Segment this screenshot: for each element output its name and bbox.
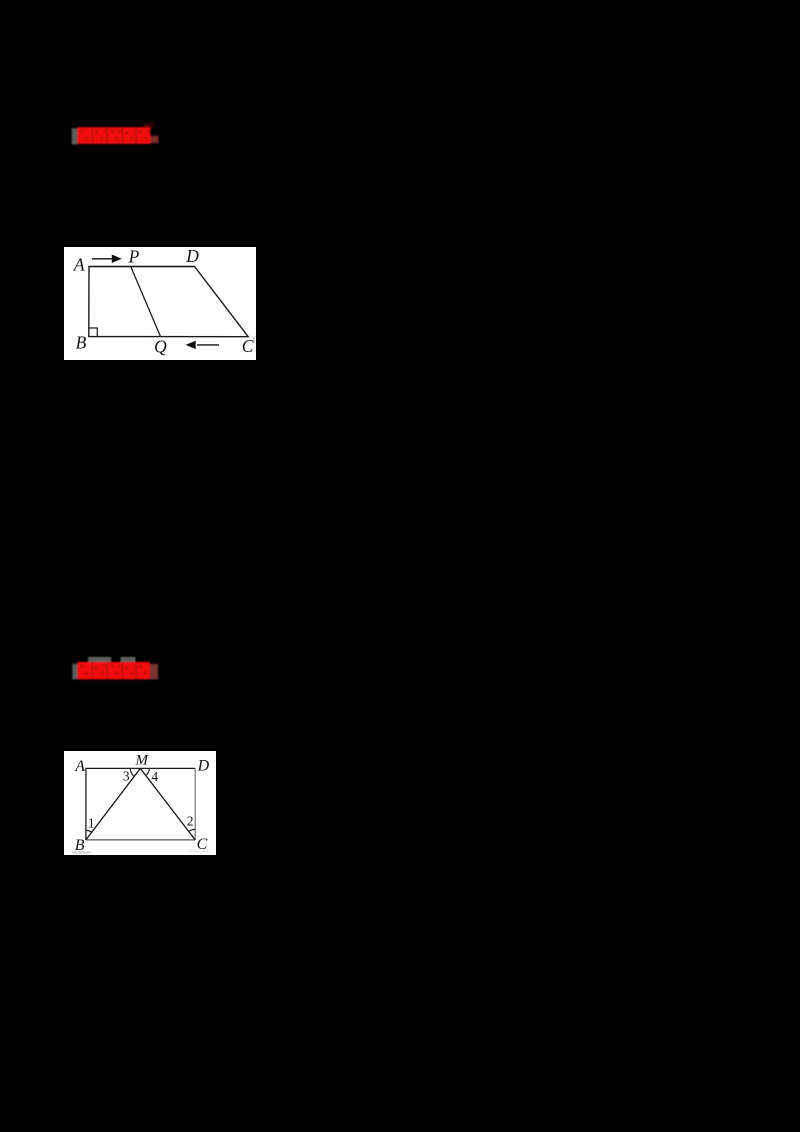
svg-text:M: M <box>134 753 149 769</box>
svg-text:3: 3 <box>123 768 130 783</box>
svg-text:B: B <box>76 333 87 353</box>
svg-text:1: 1 <box>88 816 95 831</box>
svg-text:A: A <box>73 255 85 275</box>
svg-text:D: D <box>197 758 210 775</box>
svg-text:Q: Q <box>154 337 167 357</box>
svg-text:4: 4 <box>151 769 158 784</box>
svg-text:C: C <box>242 336 254 356</box>
svg-text:D: D <box>185 247 199 266</box>
svg-text:A: A <box>74 758 85 775</box>
svg-text:P: P <box>128 247 140 267</box>
svg-text:2: 2 <box>187 814 194 829</box>
